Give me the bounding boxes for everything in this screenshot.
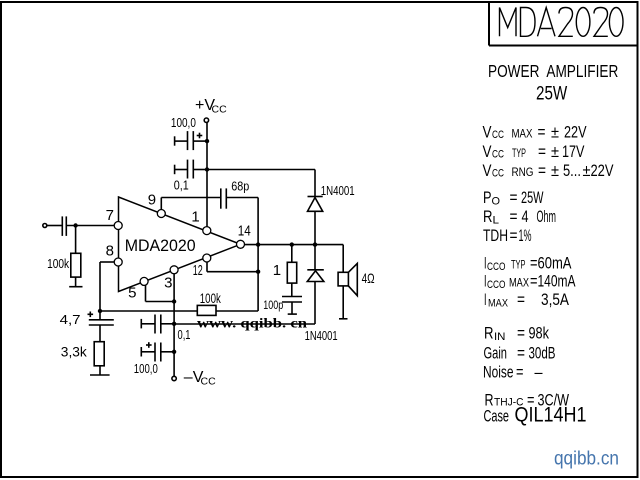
- pin 14: [237, 223, 251, 249]
- svg-text:qqibb.cn: qqibb.cn: [554, 449, 619, 470]
- svg-text:14: 14: [238, 223, 251, 240]
- spec Vcc max: [483, 123, 588, 142]
- capacitor 0,1 top: [174, 160, 207, 193]
- svg-text:8: 8: [106, 242, 114, 259]
- node junction Vcc-0,1: [205, 167, 209, 171]
- pin 8: [106, 242, 123, 266]
- node A junction: [98, 309, 102, 313]
- node junction input: [172, 322, 176, 326]
- svg-text:0,1: 0,1: [178, 327, 191, 342]
- pin 9: [148, 192, 166, 218]
- speaker LS1 4ohm: [338, 245, 375, 319]
- node +VCC terminal: [195, 97, 227, 122]
- svg-text:POWER AMPLIFIER: POWER AMPLIFIER: [488, 63, 618, 82]
- wire +Vcc rail: [206, 123, 208, 227]
- wire diode to output: [314, 211, 316, 244]
- subtitle POWER AMPLIFIER: [488, 63, 618, 82]
- spec Rthj-c: [484, 391, 569, 410]
- wire pin5 branch: [146, 285, 175, 302]
- node junction input: [73, 223, 77, 227]
- svg-text:0,1: 0,1: [174, 178, 189, 193]
- spec TDH: [483, 227, 532, 246]
- spec Vcc rng: [483, 162, 615, 181]
- svg-text:3: 3: [164, 275, 172, 292]
- svg-text:9: 9: [148, 192, 156, 209]
- op-amp U1 triangle: [119, 197, 241, 292]
- node junction Vcc-100,0: [205, 139, 209, 143]
- svg-text:CaseQIL14H1: CaseQIL14H1: [483, 403, 586, 426]
- node junction diode2: [313, 242, 317, 246]
- svg-text:www. qqibb. cn: www. qqibb. cn: [197, 317, 307, 332]
- svg-text:100,0: 100,0: [171, 115, 196, 130]
- capacitor 100,0 bottom: [134, 342, 174, 376]
- capacitor 100,0 top: [171, 115, 207, 150]
- node -VCC terminal: [172, 369, 216, 388]
- capacitor input: [47, 216, 115, 236]
- pin 12: [193, 254, 211, 279]
- pin 1: [191, 209, 210, 235]
- svg-text:100k: 100k: [200, 290, 222, 306]
- wire pin9 riser: [160, 198, 162, 211]
- node junction pin5-pin3: [172, 299, 176, 303]
- spec Po: [483, 189, 544, 208]
- wire output line: [244, 244, 344, 246]
- svg-text:CC: CC: [201, 376, 217, 388]
- node junction pin5-pin3: [172, 350, 176, 354]
- spec RL: [483, 208, 556, 227]
- svg-text:4Ω: 4Ω: [362, 270, 375, 286]
- svg-text:7: 7: [106, 207, 114, 224]
- svg-text:4,7: 4,7: [60, 312, 81, 327]
- svg-text:1: 1: [273, 262, 281, 279]
- spec Case: [483, 403, 586, 426]
- pin 5: [128, 277, 148, 301]
- svg-text:Gain=30dB: Gain=30dB: [483, 344, 555, 363]
- svg-text:100,0: 100,0: [134, 361, 158, 376]
- subtitle 25W: [536, 82, 568, 104]
- svg-text:1N4001: 1N4001: [321, 183, 355, 198]
- title text MDA2020 glyphs: [500, 8, 624, 37]
- svg-text:5: 5: [128, 285, 136, 302]
- svg-text:100k: 100k: [47, 256, 69, 271]
- diode D2 1N4001: [305, 245, 338, 343]
- resistor 100k feedback: [100, 290, 258, 315]
- svg-text:Noise=–: Noise=–: [483, 363, 543, 382]
- svg-text:MDA2020: MDA2020: [125, 236, 196, 255]
- capacitor 68p: [161, 178, 258, 208]
- svg-text:12: 12: [193, 262, 203, 279]
- svg-text:CC: CC: [212, 104, 228, 116]
- capacitor 0,1 bottom: [141, 315, 190, 343]
- wire feedback vertical: [257, 198, 259, 312]
- pin 3: [164, 266, 178, 292]
- pin 7: [106, 207, 123, 230]
- svg-text:TDH=1%: TDH=1%: [483, 227, 532, 246]
- spec Imax: [484, 291, 570, 310]
- spec Rin: [484, 324, 549, 343]
- svg-text:100p: 100p: [263, 298, 283, 312]
- svg-text:1N4001: 1N4001: [305, 328, 338, 343]
- wire bottom rail: [174, 323, 315, 325]
- svg-text:3,3k: 3,3k: [61, 344, 87, 359]
- title box: [489, 2, 638, 46]
- spec Icco max: [484, 272, 576, 291]
- node junction 1ohm tap: [290, 242, 294, 246]
- node junction fb: [256, 270, 260, 274]
- diode D1 1N4001: [308, 183, 355, 211]
- spec Vcc typ: [483, 143, 586, 162]
- node input terminal: [43, 224, 47, 228]
- resistor 1 ohm: [273, 245, 297, 297]
- wire pin8 to node A: [100, 262, 115, 311]
- node junction output: [256, 242, 260, 246]
- resistor 100k input: [47, 226, 82, 287]
- capacitor 100p: [263, 297, 302, 315]
- spec Gain: [483, 344, 555, 363]
- wire pin12 drop: [207, 262, 258, 272]
- svg-text:68p: 68p: [231, 178, 249, 193]
- svg-text:25W: 25W: [536, 82, 568, 104]
- spec Icco typ: [484, 254, 572, 273]
- spec Noise: [483, 363, 543, 382]
- capacitor 4,7: [60, 311, 114, 327]
- svg-text:1: 1: [191, 209, 199, 226]
- wire diode drop: [314, 170, 316, 197]
- wire top rail to diode: [207, 169, 315, 171]
- wire pin3 vertical: [173, 273, 175, 376]
- resistor 3,3k: [61, 325, 110, 375]
